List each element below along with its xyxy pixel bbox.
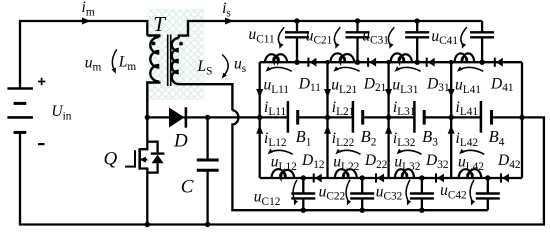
junction node cell 3 on mid rail	[386, 115, 391, 120]
MOSFET Q gate lead	[125, 166, 135, 168]
junction node C11 row	[294, 60, 299, 65]
wire cell 4 bottom row	[451, 177, 522, 179]
transformer secondary winding	[172, 21, 233, 110]
junction node C42 row	[485, 175, 490, 180]
junction node C31 top rail	[415, 18, 420, 23]
inductor L12	[272, 169, 295, 178]
capacitor C22	[361, 178, 363, 194]
arc arrow for u_C21	[334, 27, 340, 45]
battery B4 short plate	[490, 110, 493, 125]
svg-text:Q: Q	[104, 149, 118, 170]
diode D12	[313, 173, 315, 182]
wire cell 2 left vertical	[326, 62, 328, 178]
wire cell 4 left vertical	[450, 62, 452, 178]
MOSFET Q source wire	[140, 169, 148, 225]
capacitor C	[206, 117, 208, 160]
wire top rail right (secondary to cells)	[187, 20, 482, 22]
wire cell 3 top row	[389, 61, 452, 63]
junction node C32 row	[419, 175, 424, 180]
arc arrow for u_C22	[346, 180, 350, 202]
battery B3 long plate	[413, 101, 416, 133]
junction node C22 row	[360, 175, 365, 180]
arc arrow for L_m	[112, 49, 116, 70]
primary polarity dot	[152, 42, 156, 46]
junction node C22 inner rail	[360, 208, 365, 213]
diode D11	[307, 58, 309, 67]
capacitor C32	[421, 178, 423, 194]
MOSFET Q drain wire	[140, 117, 148, 149]
diode D42	[500, 173, 502, 182]
capacitor C11	[296, 21, 298, 32]
inductor L22	[335, 169, 357, 178]
junction node top row dots at verticals	[325, 60, 330, 65]
capacitor C41	[481, 21, 483, 32]
wire cell 1 top row	[260, 61, 328, 63]
inductor L42	[459, 169, 482, 178]
wire cell 3 left vertical	[387, 62, 389, 178]
arrow i_L32 up	[385, 125, 392, 134]
wire cell 2 bottom row	[328, 177, 389, 179]
junction node at capacitor C top	[205, 115, 210, 120]
junction node C32 inner rail	[419, 208, 424, 213]
arrow i_L21 down	[324, 89, 331, 98]
battery U_in	[7, 87, 33, 90]
arrow i_L22 up	[324, 125, 331, 134]
arrow i_L31 down	[385, 89, 392, 98]
battery B1 long plate	[287, 101, 290, 133]
wire cell 3 bottom row	[389, 177, 452, 179]
battery B2 short plate	[361, 110, 364, 125]
wire mid rail segment right of B2	[363, 116, 415, 118]
arrow i_L42 up	[448, 125, 455, 134]
diode D32	[435, 173, 437, 182]
diode D21	[367, 58, 369, 67]
arc arrow for u_L31	[397, 67, 421, 71]
MOSFET Q channel bar	[138, 148, 141, 169]
arrow i_L11 down	[256, 89, 263, 98]
label - (U_in negative)	[38, 143, 45, 145]
arc arrow for u_s	[222, 55, 228, 76]
wire cell 1 bottom row	[260, 177, 328, 179]
wire mid rail left segment	[147, 116, 288, 118]
arc arrow for u_L12	[270, 150, 293, 154]
junction node cell 1 on mid rail	[257, 115, 262, 120]
MOSFET Q body diode branch	[147, 142, 157, 173]
wire mid rail segment right of B1	[298, 116, 353, 118]
svg-text:C: C	[181, 177, 194, 198]
MOSFET Q gate bar	[134, 150, 136, 167]
inductor L41	[455, 53, 475, 62]
wire cell 4 right vertical	[521, 62, 523, 178]
wire U_in bottom to bottom rail	[19, 132, 21, 224]
arc arrow for u_L22	[338, 150, 361, 154]
MOSFET Q body lead with arrow	[141, 159, 148, 161]
inductor L31	[391, 53, 412, 62]
wire secondary return drop with crossover hop	[232, 110, 487, 210]
junction node at Q drain	[145, 115, 150, 120]
capacitor C42	[487, 178, 489, 194]
inductor L32	[395, 169, 414, 178]
diode D31	[426, 58, 428, 67]
arrow i_L41 down	[448, 89, 455, 98]
junction node cell 2 on mid rail	[325, 115, 330, 120]
junction node C12 row	[301, 175, 306, 180]
arc arrow for u_L41	[459, 67, 483, 71]
diode D	[169, 108, 185, 128]
battery B2 long plate	[352, 101, 355, 133]
wire bottom outer rail	[19, 223, 545, 225]
wire top rail left (U_in to transformer primary)	[20, 21, 147, 89]
junction node right vertical on mid rail	[519, 115, 524, 120]
diode D22	[375, 173, 377, 182]
capacitor C21	[356, 21, 358, 32]
arc arrow for u_C31	[388, 27, 394, 45]
arc arrow for u_C11	[278, 27, 284, 45]
capacitor C12	[302, 178, 304, 194]
junction node cell 4 on mid rail	[449, 115, 454, 120]
wire cell 4 top row	[451, 61, 522, 63]
battery B3 short plate	[423, 110, 426, 125]
arc arrow for u_L11	[268, 67, 292, 71]
capacitor C31	[416, 21, 418, 32]
arc arrow for u_C42	[470, 180, 474, 202]
junction node C bottom on bottom rail	[205, 222, 210, 227]
arrow i_s	[225, 18, 234, 25]
svg-text:D: D	[173, 131, 188, 152]
wire mid rail segment right of B3	[424, 116, 481, 118]
junction node C41 row	[479, 60, 484, 65]
junction node C11 top rail	[294, 18, 299, 23]
label + (U_in positive)	[38, 81, 45, 83]
diode D41	[494, 58, 496, 67]
battery B4 long plate	[480, 101, 483, 133]
transformer primary winding L_m side	[147, 36, 159, 118]
wire cell 1 left vertical	[259, 62, 261, 178]
junction node C31 row	[415, 60, 420, 65]
arc arrow for u_C41	[461, 27, 467, 45]
arrow i_m	[82, 18, 91, 25]
arc arrow for u_L21	[336, 67, 360, 71]
svg-text:T: T	[153, 12, 166, 36]
inductor L11	[265, 54, 287, 62]
junction node C12 inner rail	[301, 208, 306, 213]
arc arrow for u_L42	[461, 150, 484, 154]
arc arrow for u_L32	[399, 150, 422, 154]
battery B1 short plate	[296, 110, 299, 125]
junction node C21 top rail	[355, 18, 360, 23]
arc arrow for u_C32	[406, 180, 410, 202]
secondary polarity dot	[179, 42, 183, 46]
junction node C21 row	[355, 60, 360, 65]
wire cell 2 top row	[328, 61, 389, 63]
inductor L21	[331, 53, 355, 62]
transformer core	[167, 35, 169, 87]
arrow i_L12 up	[256, 125, 263, 134]
arc arrow for u_C12	[293, 180, 297, 202]
junction node Q source on bottom rail	[145, 222, 150, 227]
wire right edge (B4 return)	[492, 117, 544, 224]
